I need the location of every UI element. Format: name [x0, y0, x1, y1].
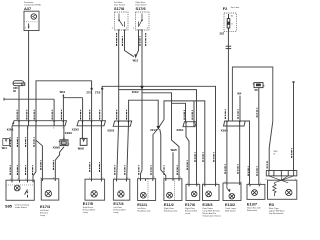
svg-text:1: 1	[118, 128, 119, 130]
ground W10	[60, 90, 83, 121]
branch to strip X30/1 pin5	[53, 99, 55, 121]
svg-text:R3: R3	[269, 202, 275, 207]
connector strip X30/6 under fuse	[224, 121, 246, 126]
E17/4 pins	[117, 179, 127, 181]
E17/4 lamp	[118, 191, 124, 197]
svg-text:X35/2: X35/2	[72, 128, 80, 132]
svg-text:A37: A37	[24, 6, 31, 11]
svg-text:3: 3	[101, 128, 102, 130]
door switch S17/6 box	[136, 12, 150, 30]
bus line L3 from S17/8 wire over to drop at x=196.5	[119, 90, 197, 185]
E11/1 lamp	[140, 192, 146, 198]
wire fuse to strip X30/6	[227, 31, 229, 121]
wire strip pin5 through connector X56/8 to E17/3 pin2	[55, 126, 64, 179]
svg-text:Lamp: Lamp	[113, 212, 119, 214]
svg-text:E11/2: E11/2	[164, 202, 175, 207]
ground W9/2	[78, 126, 87, 151]
svg-text:Day Illumination: Day Illumination	[269, 212, 284, 215]
E17/3 pins	[42, 179, 55, 181]
svg-text:Lamp: Lamp	[40, 215, 46, 217]
svg-text:Z21/2: Z21/2	[132, 90, 139, 94]
wire Z21/1 to lamp E11/2 pin1	[160, 129, 166, 179]
ground W12	[133, 54, 139, 62]
E17/5 lamp	[91, 191, 97, 197]
bus line L0 (terminal 58d feed)	[4, 98, 54, 101]
svg-text:X56/8: X56/8	[53, 145, 61, 149]
X26 labels	[13, 86, 18, 93]
svg-text:Reading Lamp: Reading Lamp	[164, 210, 178, 212]
E13/7 lamp	[252, 190, 258, 196]
E17/3 lamp	[45, 190, 51, 196]
connector strip X35/2	[77, 121, 106, 126]
svg-text:2: 2	[53, 177, 54, 179]
bus line L2 from Z7/2 over to right drop at x=215.5	[102, 86, 215, 184]
wire A37 to strip X30/1	[28, 31, 30, 121]
solder point Z7/1	[90, 88, 92, 90]
bus line L1 from strip pin4 up and over to solder point Z7/1	[36, 81, 92, 121]
wire labels below strip X30/1	[10, 137, 34, 147]
fuse labels 30 and 8	[231, 16, 234, 26]
cigar lighter R3 connector strip	[266, 171, 297, 176]
svg-text:2: 2	[185, 120, 186, 122]
svg-text:E17/3: E17/3	[40, 204, 51, 209]
svg-text:2: 2	[17, 179, 18, 181]
E11/2 lamp	[167, 192, 173, 198]
ground W11	[2, 139, 12, 150]
svg-text:1: 1	[163, 177, 164, 179]
svg-text:E11/1: E11/1	[137, 202, 148, 207]
S17/8 pin numbers	[112, 28, 128, 30]
strip X35/2 pins	[83, 121, 102, 126]
svg-text:Inside Switch: Inside Switch	[15, 206, 27, 209]
svg-text:2: 2	[128, 128, 129, 130]
svg-text:1: 1	[193, 120, 194, 122]
wire Z7/1 to strip X35/2 pin2	[91, 89, 93, 121]
svg-text:2: 2	[154, 177, 155, 179]
E15/3 lamp	[206, 191, 212, 197]
wire label at R3 pin1	[266, 161, 268, 168]
svg-text:Z7/2: Z7/2	[95, 90, 101, 94]
strip X30/1 pins	[12, 121, 63, 126]
solder point Z21/1	[150, 126, 160, 132]
E17/3 label	[40, 204, 51, 217]
solder point Z7/2	[101, 88, 103, 90]
wire S17/8 pin1 to ground W12	[125, 30, 134, 57]
R3 pin numbers	[265, 179, 296, 181]
connector strip X35/4	[183, 122, 196, 127]
svg-text:X30/1: X30/1	[7, 127, 15, 131]
lamp E11/1 box	[138, 179, 156, 201]
svg-text:S17/8: S17/8	[114, 6, 125, 11]
svg-text:X35/3: X35/3	[107, 128, 115, 132]
wires strip X35/3 to E17/4	[117, 126, 129, 179]
S17/6 switch contact	[137, 14, 143, 30]
svg-text:2: 2	[241, 182, 242, 184]
S85 label	[5, 203, 29, 209]
interior equipment box	[232, 67, 272, 121]
E11/1 pins	[141, 179, 153, 181]
wire X8 down to E13/7 pin2	[258, 88, 260, 185]
wires strip X35/2 to E17/5	[92, 126, 102, 179]
lamp E17/5 box	[85, 179, 105, 200]
S85 pins	[12, 180, 33, 182]
svg-text:W10: W10	[60, 90, 66, 94]
svg-text:E17/6: E17/6	[185, 202, 196, 207]
S85 switch contact	[25, 190, 29, 198]
lamp E13/2 box	[223, 183, 241, 201]
svg-text:Illuminated: Illuminated	[247, 209, 257, 212]
svg-text:1: 1	[203, 183, 204, 185]
wire strip X30/6 right end jog to E13/7 pin1	[245, 121, 249, 184]
lamp E17/6 box	[186, 184, 200, 200]
svg-text:W12: W12	[133, 59, 139, 63]
lamp E17/3 box	[41, 179, 59, 200]
lamp E17/4 box	[113, 179, 129, 200]
wire S17/8 pin2 down (to bus L3 and strip X35/3)	[118, 30, 120, 121]
door switch S17/8 box	[115, 12, 129, 30]
connector X56/8	[59, 136, 69, 145]
wire X35/4 pin1 to E17/6 pin1	[186, 127, 189, 185]
connector strip X30/1	[13, 121, 67, 126]
svg-text:5: 5	[63, 128, 64, 130]
wires strip X30/1 to S85	[12, 126, 28, 180]
wire interior box edge down to R3 strip	[269, 121, 273, 170]
svg-text:Z7/1: Z7/1	[86, 90, 92, 94]
Z7 labels	[86, 90, 100, 94]
svg-text:2: 2	[28, 128, 29, 130]
ground W4 stub	[237, 92, 241, 121]
door switch S17/6 label	[136, 1, 147, 11]
wire strip pin4 to S85 pin4 and branch to E17/3	[33, 126, 42, 180]
svg-text:With Switch: With Switch	[225, 209, 236, 212]
svg-text:30Z: 30Z	[220, 32, 225, 36]
svg-text:1: 1	[226, 128, 227, 130]
svg-text:W9/5: W9/5	[171, 148, 178, 152]
svg-text:Lamp: Lamp	[185, 213, 191, 215]
svg-text:/3: /3	[274, 154, 276, 156]
svg-text:4: 4	[53, 128, 54, 130]
A37 pump motor symbol	[31, 14, 36, 19]
fuse box F2 label	[223, 6, 239, 11]
svg-text:E17/4: E17/4	[113, 201, 124, 206]
branch from L6 to strip X35/4 pin2	[193, 101, 195, 122]
svg-text:E15/3: E15/3	[202, 202, 213, 207]
svg-text:1: 1	[18, 128, 19, 130]
lamp E15/3 box	[203, 184, 220, 200]
wire Z21/2 down to lamp E11/1	[141, 88, 143, 179]
svg-text:1: 1	[138, 177, 139, 179]
svg-text:2: 2	[216, 183, 217, 185]
wire labels above bottom lamps	[10, 148, 292, 176]
svg-text:S17/6: S17/6	[136, 6, 147, 11]
svg-text:1: 1	[114, 178, 115, 180]
R3 heater resistor	[273, 183, 276, 196]
wire color labels at switches	[117, 33, 146, 46]
door switch S17/8 label	[114, 1, 125, 11]
S85 lamp	[14, 185, 20, 191]
R3 label	[269, 202, 285, 215]
svg-text:W11: W11	[2, 146, 8, 150]
ground stub W9/5 at E11/2	[171, 148, 178, 179]
E11/1 label	[137, 202, 151, 213]
E15/3 label	[202, 202, 221, 218]
svg-text:X35/4: X35/4	[176, 128, 184, 132]
switch unit S85 box	[6, 180, 34, 200]
svg-text:1: 1	[225, 182, 226, 184]
strip X30/1 labels	[7, 127, 73, 134]
wire Z21/1 to lamp E11/1 pin2	[153, 129, 158, 179]
connector strip X35/3	[113, 121, 132, 126]
E13/2 lamp	[227, 185, 235, 199]
svg-text:E13/2: E13/2	[225, 202, 236, 207]
S17/6 pin numbers	[133, 28, 149, 30]
svg-text:3: 3	[25, 179, 26, 181]
svg-text:30: 30	[13, 89, 16, 93]
fuse F2/8 symbol	[227, 14, 230, 31]
svg-text:Temperature Sensor: Temperature Sensor	[202, 214, 221, 217]
svg-text:1: 1	[82, 128, 83, 130]
svg-text:Fuse box: Fuse box	[231, 7, 239, 9]
wire W4 through strip to E13/2 pin2	[239, 126, 241, 183]
E13/2 label	[225, 202, 237, 213]
R3 strip pins	[269, 171, 294, 176]
strip X35/4 pins	[186, 122, 194, 127]
svg-text:W9/2: W9/2	[78, 147, 85, 151]
control unit A37 box	[24, 11, 39, 30]
svg-text:2: 2	[127, 178, 128, 180]
svg-text:Reading Lamp: Reading Lamp	[137, 210, 151, 212]
E17/4 label	[113, 201, 126, 214]
junction Z21/2 arrow	[132, 86, 144, 94]
svg-text:W4: W4	[237, 92, 241, 96]
E11/2 label	[164, 202, 178, 213]
lamp pin numbers	[10, 177, 261, 185]
strip X30/6 pins	[227, 121, 240, 126]
svg-text:1: 1	[10, 179, 11, 181]
bus line L6 from Z21/1 over to drop at x=204.8	[159, 101, 204, 184]
lamp E11/2 box	[164, 179, 182, 201]
E11/2 pins	[166, 179, 179, 181]
svg-text:Lamp: Lamp	[83, 212, 89, 214]
svg-text:1: 1	[187, 183, 188, 185]
wire antenna feed down to R3 strip	[292, 81, 295, 170]
E13/2 pins	[227, 183, 240, 185]
svg-text:1: 1	[40, 177, 41, 179]
wire S17/6 pin3 down to junction Z21/2	[141, 30, 143, 88]
svg-text:E13/7: E13/7	[247, 201, 257, 206]
svg-text:1: 1	[89, 178, 90, 180]
connector X26	[13, 81, 25, 86]
bus line L4 from junction to X35/4 and E11/2	[142, 93, 186, 179]
svg-text:2: 2	[239, 128, 240, 130]
svg-text:2: 2	[180, 177, 181, 179]
E17/6 label	[185, 202, 198, 215]
E17/5 label	[83, 201, 96, 214]
svg-text:1: 1	[248, 183, 249, 185]
E13/7 pins	[250, 184, 259, 186]
wire Z7/2 to strip X35/2 pin3	[101, 89, 103, 121]
svg-text:X8: X8	[254, 88, 258, 92]
connector X8	[253, 83, 265, 88]
svg-text:3: 3	[35, 128, 36, 130]
svg-text:2: 2	[91, 128, 92, 130]
wire labels above strips	[17, 108, 257, 120]
strip X35/3 pins	[119, 121, 129, 126]
svg-text:2: 2	[102, 178, 103, 180]
E17/5 pins	[92, 179, 102, 181]
fuse box F2 dashed box	[224, 13, 236, 31]
connector ticks on fuse wire	[226, 46, 232, 48]
E13/7 label	[247, 201, 261, 212]
bus line L5 from strip X35/3 pin2 over to solder point Z21/1	[129, 100, 159, 126]
svg-text:2: 2	[198, 183, 199, 185]
E15/3 pins	[205, 184, 216, 186]
A37 pin 1	[25, 24, 30, 30]
E17/6 pins	[189, 184, 197, 186]
R3 box	[268, 180, 297, 199]
wire X26 to strip X30/1	[18, 86, 20, 121]
wire S17/6 pin1 to ground W12	[136, 30, 138, 55]
S17/8 switch contact	[118, 14, 126, 30]
lamp E13/7 box	[247, 184, 265, 199]
wire strip X30/6 pin1 to E13/2 pin1	[226, 126, 228, 183]
R3 crossing wires strip to box	[269, 176, 294, 183]
R3 lamp	[286, 189, 292, 195]
svg-text:2: 2	[260, 183, 261, 185]
control unit A37 label	[24, 1, 41, 11]
strip pin numbers	[18, 120, 240, 130]
svg-text:S85: S85	[5, 204, 13, 209]
svg-text:E17/5: E17/5	[83, 201, 94, 206]
E17/6 lamp	[191, 191, 197, 197]
